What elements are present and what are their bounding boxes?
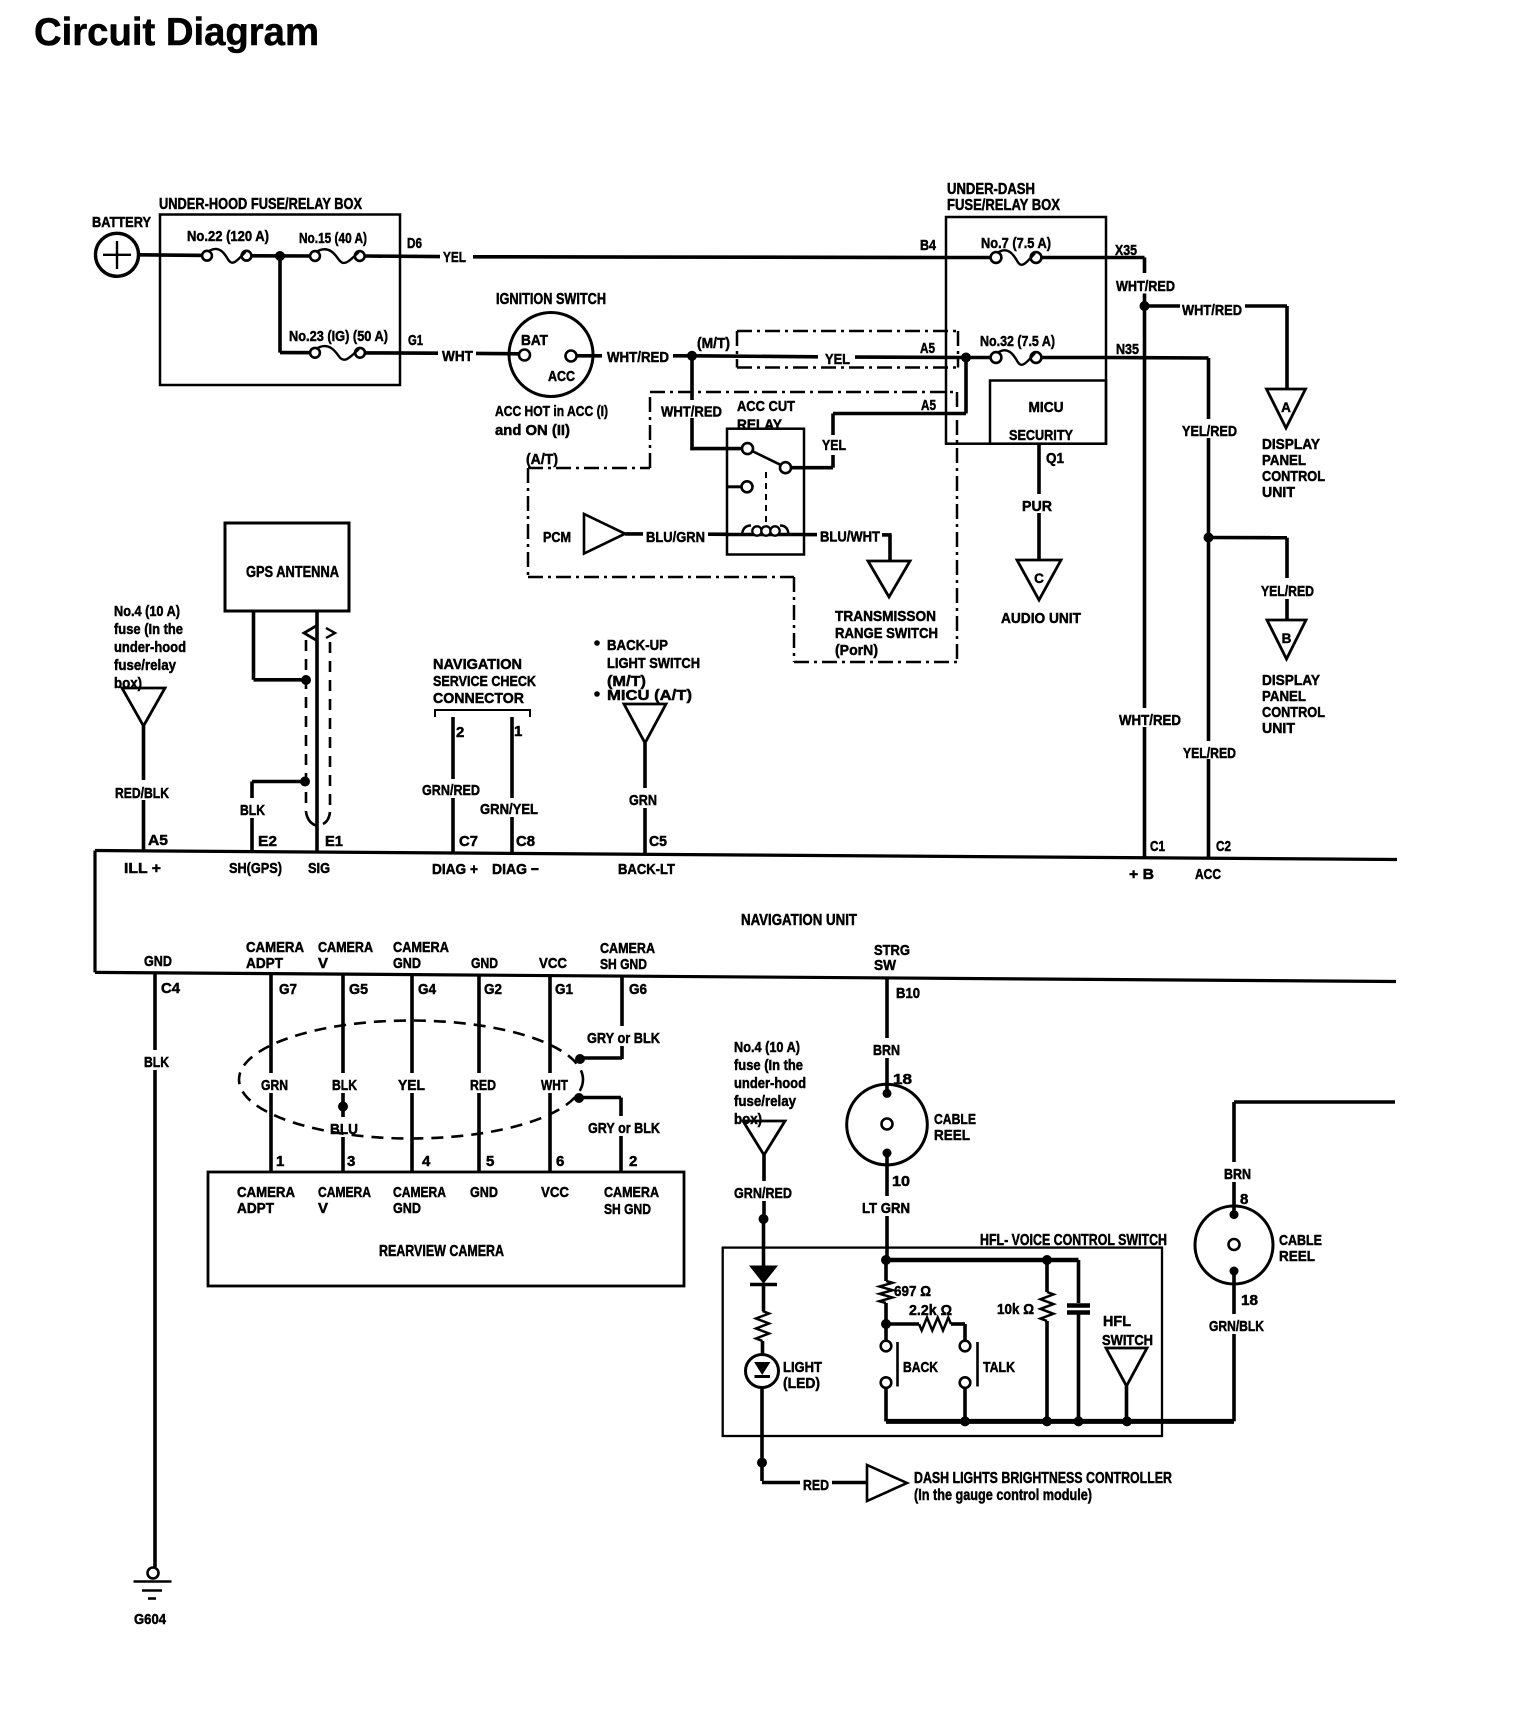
wire GND BLK to ground (153, 973, 157, 1050)
svg-text:under-hood: under-hood (734, 1075, 806, 1092)
svg-text:GRY or BLK: GRY or BLK (588, 1120, 660, 1137)
svg-text:YEL/RED: YEL/RED (1261, 583, 1314, 600)
wire gps SIG to nav E1 (315, 611, 319, 852)
wire junction down to fuse23 (278, 256, 282, 353)
wire LED to RED brightness controller (760, 1388, 764, 1482)
svg-text:WHT/RED: WHT/RED (607, 349, 669, 366)
svg-text:GPS ANTENNA: GPS ANTENNA (246, 564, 339, 581)
svg-text:A: A (1281, 400, 1291, 415)
fuse No.22 (120 A) (202, 251, 212, 261)
wire shield to camera pin 2 (579, 1096, 621, 1100)
svg-text:CAMERA: CAMERA (237, 1184, 295, 1201)
back-up light switch note (594, 640, 600, 646)
svg-text:G7: G7 (279, 981, 297, 998)
node shield ellipse bottom (574, 1093, 584, 1103)
node splice BLU (338, 1102, 348, 1112)
wire B10 BRN to cable reel (885, 978, 889, 1038)
svg-text:(A/T): (A/T) (526, 451, 558, 468)
svg-text:IGNITION SWITCH: IGNITION SWITCH (496, 291, 606, 308)
svg-text:N35: N35 (1116, 341, 1139, 358)
arrow from No.4 fuse (122, 688, 165, 726)
svg-text:TRANSMISSON: TRANSMISSON (835, 608, 936, 625)
svg-text:DIAG +: DIAG + (432, 861, 478, 878)
svg-text:REEL: REEL (1279, 1248, 1315, 1265)
svg-text:HFL: HFL (1103, 1313, 1131, 1330)
node junction below 697 (881, 1319, 891, 1329)
wire G1 WHT to ignition switch (365, 351, 438, 355)
svg-text:PCM: PCM (543, 529, 571, 546)
svg-text:SH(GPS): SH(GPS) (229, 860, 282, 877)
svg-text:GND: GND (393, 1200, 421, 1217)
svg-text:2.2k Ω: 2.2k Ω (909, 1302, 952, 1319)
under-hood fuse/relay box (160, 215, 400, 386)
wire WHT/RED down to relay (690, 356, 694, 400)
ground G604 (148, 1568, 159, 1579)
svg-text:C5: C5 (649, 833, 667, 850)
svg-text:V: V (318, 1200, 328, 1217)
switch BACK (884, 1324, 888, 1341)
svg-text:C2: C2 (1216, 838, 1231, 855)
transmission range switch arrow (868, 561, 910, 597)
svg-text:CONNECTOR: CONNECTOR (433, 690, 524, 707)
svg-text:(PorN): (PorN) (835, 642, 878, 659)
svg-text:PUR: PUR (1022, 498, 1052, 515)
svg-text:YEL/RED: YEL/RED (1183, 745, 1236, 762)
svg-text:HFL- VOICE CONTROL SWITCH: HFL- VOICE CONTROL SWITCH (980, 1232, 1167, 1249)
relay terminal 3 (742, 481, 753, 492)
svg-text:CAMERA: CAMERA (246, 939, 304, 956)
svg-text:RED: RED (803, 1477, 829, 1494)
svg-text:BAT: BAT (521, 333, 548, 349)
svg-text:YEL: YEL (443, 249, 466, 266)
wire diode to resistor (762, 1286, 766, 1311)
svg-text:G1: G1 (555, 981, 573, 998)
node junction LT GRN bus (881, 1255, 891, 1265)
svg-text:DISPLAY: DISPLAY (1262, 672, 1320, 689)
display panel control unit A arrow (1267, 389, 1306, 428)
node junction RED (757, 1458, 767, 1468)
arrow from No.4 fuse bottom (743, 1121, 785, 1155)
svg-text:C7: C7 (459, 833, 478, 850)
light LED (746, 1355, 779, 1388)
svg-text:YEL: YEL (398, 1077, 425, 1094)
svg-text:GND: GND (393, 955, 421, 972)
wire BLK shield to nav E2 (252, 780, 305, 784)
wire YEL/RED rail down to nav C2 (1207, 538, 1211, 742)
svg-text:BRN: BRN (873, 1042, 900, 1059)
wire YEL from relay T2 to A5 node (791, 466, 833, 470)
svg-text:DIAG −: DIAG − (492, 861, 539, 878)
svg-text:BACK-LT: BACK-LT (618, 861, 675, 878)
svg-text:AUDIO UNIT: AUDIO UNIT (1001, 610, 1081, 627)
svg-text:LIGHT: LIGHT (783, 1359, 822, 1376)
svg-text:(LED): (LED) (783, 1375, 820, 1392)
gps shield dashed right (329, 642, 332, 812)
svg-text:CABLE: CABLE (934, 1111, 976, 1128)
svg-text:10k Ω: 10k Ω (997, 1301, 1034, 1318)
svg-text:A5: A5 (920, 340, 935, 357)
switch TALK (960, 1341, 971, 1352)
svg-text:CAMERA: CAMERA (318, 939, 373, 956)
gps shield chevrons (304, 626, 316, 640)
svg-text:REARVIEW CAMERA: REARVIEW CAMERA (379, 1243, 504, 1260)
svg-text:SW: SW (874, 957, 897, 974)
svg-text:No.7 (7.5 A): No.7 (7.5 A) (981, 235, 1051, 252)
wire hfl bottom bus (886, 1419, 1234, 1424)
svg-text:BATTERY: BATTERY (92, 214, 151, 231)
resistor 2.2k ohm (886, 1322, 919, 1326)
svg-text:CAMERA: CAMERA (604, 1184, 659, 1201)
svg-text:VCC: VCC (539, 955, 567, 972)
svg-text:BACK: BACK (903, 1359, 938, 1376)
svg-text:SERVICE CHECK: SERVICE CHECK (433, 673, 536, 690)
svg-text:E2: E2 (258, 833, 277, 850)
svg-text:SH GND: SH GND (604, 1201, 651, 1218)
svg-text:GRN/BLK: GRN/BLK (1209, 1318, 1264, 1335)
svg-text:A5: A5 (921, 397, 936, 414)
svg-text:box): box) (734, 1111, 762, 1128)
svg-text:BLU/GRN: BLU/GRN (646, 529, 705, 546)
svg-text:DISPLAY: DISPLAY (1262, 436, 1320, 453)
svg-text:SWITCH: SWITCH (1102, 1332, 1153, 1349)
svg-text:SIG: SIG (308, 860, 330, 877)
svg-text:G5: G5 (349, 981, 368, 998)
svg-text:ILL +: ILL + (124, 860, 161, 877)
svg-text:GRY or BLK: GRY or BLK (587, 1030, 660, 1047)
wire BRN cable reel 2 (1234, 1100, 1395, 1104)
fuse No.32 (7.5 A) (966, 356, 996, 360)
wire X35 to WHT/RED rail (1106, 256, 1145, 260)
svg-text:WHT/RED: WHT/RED (661, 404, 722, 421)
svg-text:GRN/RED: GRN/RED (734, 1185, 792, 1202)
svg-text:UNDER-DASH: UNDER-DASH (947, 181, 1035, 198)
svg-text:CAMERA: CAMERA (393, 939, 449, 956)
wire RED/BLK to nav A5 (142, 726, 146, 780)
node junction GRN/RED (759, 1214, 769, 1224)
gps shield dashed left (305, 640, 308, 812)
svg-text:V: V (318, 955, 328, 972)
svg-text:C4: C4 (161, 980, 181, 997)
svg-text:RED: RED (470, 1077, 496, 1094)
svg-text:+ B: + B (1129, 866, 1154, 883)
wire battery to under-hood box (139, 253, 208, 257)
svg-text:18: 18 (1241, 1292, 1258, 1309)
svg-text:(M/T): (M/T) (697, 335, 730, 352)
svg-text:UNIT: UNIT (1262, 720, 1295, 737)
rearview camera box (208, 1172, 684, 1286)
node junction A5 YEL (961, 353, 971, 363)
node junction under-hood (275, 251, 285, 261)
svg-text:PANEL: PANEL (1262, 688, 1306, 705)
svg-text:GND: GND (144, 953, 172, 970)
relay coil L1 (727, 533, 804, 537)
cable reel 2 (1230, 1210, 1239, 1219)
svg-text:WHT/RED: WHT/RED (1119, 712, 1181, 729)
node junction YEL/RED rail (1204, 533, 1214, 543)
svg-text:D6: D6 (407, 235, 422, 252)
fuse No.15 (40 A) (310, 251, 320, 261)
hfl voice control switch box (723, 1248, 1162, 1436)
svg-text:G2: G2 (484, 981, 502, 998)
svg-text:TALK: TALK (983, 1359, 1015, 1376)
wire VCC WHT (548, 976, 552, 1073)
svg-text:No.23 (IG) (50 A): No.23 (IG) (50 A) (289, 328, 388, 345)
cable reel 1 (883, 1089, 892, 1098)
svg-text:ACC: ACC (1195, 866, 1221, 883)
wire GRN/BLK reel2 to hfl bus (1232, 1271, 1236, 1314)
wire branch to display panel control unit B (1209, 536, 1288, 540)
wire branch to display panel control unit A (1145, 304, 1181, 308)
camera harness shield ellipse (239, 1021, 583, 1139)
svg-text:WHT: WHT (541, 1077, 568, 1094)
svg-text:ADPT: ADPT (237, 1200, 274, 1217)
wire hfl top bus (886, 1258, 1079, 1263)
svg-text:GRN: GRN (629, 792, 657, 809)
wire BLU/WHT from relay coil (804, 533, 817, 537)
node junction 10k top (1042, 1255, 1052, 1265)
svg-text:No.15 (40 A): No.15 (40 A) (299, 230, 367, 247)
diode D1 (750, 1266, 777, 1283)
svg-text:CONTROL: CONTROL (1262, 468, 1325, 485)
wire inside box No.7 row (1042, 256, 1107, 260)
svg-text:under-hood: under-hood (114, 639, 186, 656)
svg-text:CONTROL: CONTROL (1262, 704, 1325, 721)
svg-text:BLK: BLK (240, 802, 265, 819)
svg-text:No.4 (10 A): No.4 (10 A) (734, 1039, 800, 1056)
svg-text:G1: G1 (408, 332, 423, 349)
svg-text:FUSE/RELAY BOX: FUSE/RELAY BOX (947, 197, 1061, 214)
resistor 697 ohm (884, 1260, 888, 1281)
svg-text:No.22 (120 A): No.22 (120 A) (187, 228, 269, 245)
back-up light switch arrow (624, 704, 666, 743)
svg-text:B: B (1282, 631, 1292, 646)
svg-text:BRN: BRN (1224, 1166, 1251, 1183)
svg-text:C8: C8 (516, 833, 535, 850)
svg-text:GND: GND (470, 1184, 498, 1201)
wire fuse22 to junction (251, 254, 315, 258)
wire camera SH GND GRY (620, 976, 624, 1026)
svg-text:BLU/WHT: BLU/WHT (820, 529, 880, 546)
ignition terminal ACC (566, 351, 577, 362)
wire camera GND YEL (410, 975, 414, 1073)
ignition switch SW1 (509, 313, 593, 397)
navigation unit box (95, 851, 1397, 860)
svg-text:fuse (In the: fuse (In the (734, 1057, 803, 1074)
svg-text:UNIT: UNIT (1262, 484, 1295, 501)
svg-text:MICU: MICU (1029, 399, 1064, 416)
svg-text:GRN/YEL: GRN/YEL (480, 801, 538, 818)
svg-text:GRN/RED: GRN/RED (422, 782, 480, 799)
svg-text:WHT/RED: WHT/RED (1182, 302, 1242, 319)
svg-text:MICU (A/T): MICU (A/T) (607, 687, 692, 704)
under-dash fuse/relay box (946, 217, 1106, 444)
wire N35 to YEL/RED rail (1106, 356, 1209, 360)
svg-text:No.4 (10 A): No.4 (10 A) (114, 603, 180, 620)
node junction WHT/RED (687, 351, 697, 361)
wire camera ADPT GRN (269, 974, 273, 1073)
svg-text:6: 6 (556, 1153, 564, 1170)
resistor 10k ohm (1045, 1260, 1049, 1292)
svg-text:4: 4 (422, 1153, 431, 1170)
svg-text:GRN: GRN (261, 1077, 288, 1094)
wire gps shield drain top (252, 611, 256, 680)
svg-text:E1: E1 (325, 833, 343, 850)
svg-text:RED/BLK: RED/BLK (115, 785, 169, 802)
svg-text:Circuit Diagram: Circuit Diagram (34, 11, 319, 54)
svg-text:LIGHT SWITCH: LIGHT SWITCH (607, 655, 700, 672)
svg-text:697 Ω: 697 Ω (894, 1283, 931, 1300)
svg-text:YEL: YEL (825, 351, 850, 368)
svg-text:SECURITY: SECURITY (1009, 427, 1073, 444)
svg-text:BLK: BLK (332, 1077, 357, 1094)
svg-text:and ON (II): and ON (II) (495, 422, 570, 439)
relay terminal 1 (742, 443, 753, 454)
svg-text:5: 5 (486, 1153, 494, 1170)
svg-text:REEL: REEL (934, 1127, 970, 1144)
svg-text:UNDER-HOOD FUSE/RELAY BOX: UNDER-HOOD FUSE/RELAY BOX (159, 196, 363, 213)
wire YEL (M/T) to under-dash A5 (692, 356, 818, 357)
svg-text:SH GND: SH GND (600, 956, 647, 973)
svg-text:YEL: YEL (822, 437, 846, 454)
svg-text:RANGE SWITCH: RANGE SWITCH (835, 625, 938, 642)
capacitor C1hfl (1077, 1260, 1081, 1303)
micu security box (990, 381, 1106, 444)
svg-text:fuse/relay: fuse/relay (734, 1093, 797, 1110)
wire WHT/RED rail down to nav C1 (1143, 306, 1147, 708)
relay blade (753, 451, 781, 465)
node shield bottom (300, 777, 310, 787)
audio unit arrow C (1017, 560, 1061, 600)
svg-text:GND: GND (471, 955, 498, 972)
wire GRN/RED into hfl box (762, 1155, 766, 1181)
wire GRN to nav C5 (643, 743, 647, 788)
svg-text:C: C (1034, 571, 1044, 586)
svg-text:NAVIGATION UNIT: NAVIGATION UNIT (741, 912, 857, 929)
svg-text:PANEL: PANEL (1262, 452, 1306, 469)
svg-text:CAMERA: CAMERA (600, 940, 655, 957)
svg-text:CAMERA: CAMERA (393, 1184, 446, 1201)
wire inside box No.32 row (1042, 356, 1107, 360)
relay ACC CUT RELAY (727, 429, 804, 555)
node shield top (301, 675, 311, 685)
dash lights brightness controller arrow (867, 1465, 907, 1501)
svg-text:1: 1 (276, 1153, 284, 1170)
svg-text:ACC: ACC (548, 369, 575, 385)
node junction WHT/RED rail (1140, 301, 1150, 311)
svg-text:Q1: Q1 (1046, 450, 1064, 467)
svg-text:YEL/RED: YEL/RED (1182, 423, 1237, 440)
gps antenna box (225, 523, 349, 611)
svg-text:G4: G4 (418, 981, 437, 998)
wire ignition ACC WHT/RED to junction (577, 354, 603, 358)
svg-text:LT GRN: LT GRN (862, 1200, 910, 1217)
svg-text:10: 10 (892, 1173, 910, 1190)
svg-text:3: 3 (347, 1153, 355, 1170)
svg-text:CABLE: CABLE (1279, 1232, 1322, 1249)
svg-text:2: 2 (629, 1153, 637, 1170)
svg-text:No.32 (7.5 A): No.32 (7.5 A) (980, 333, 1055, 350)
battery B1 (96, 233, 139, 276)
wire GND RED (477, 975, 481, 1073)
svg-text:BLK: BLK (144, 1054, 169, 1071)
svg-text:fuse (In the: fuse (In the (114, 621, 183, 638)
node shield ellipse top (575, 1054, 585, 1064)
svg-text:BACK-UP: BACK-UP (607, 637, 668, 654)
svg-text:RELAY: RELAY (737, 417, 782, 434)
svg-text:ACC HOT in ACC (I): ACC HOT in ACC (I) (495, 403, 608, 420)
svg-text:C1: C1 (1150, 838, 1165, 855)
svg-text:1: 1 (514, 723, 522, 740)
svg-text:box): box) (114, 675, 142, 692)
svg-text:WHT/RED: WHT/RED (1116, 278, 1175, 295)
svg-text:A5: A5 (148, 832, 168, 849)
svg-text:VCC: VCC (541, 1184, 569, 1201)
fuse No.23 (IG) (50 A) (310, 348, 320, 358)
relay terminal 2 (780, 462, 791, 473)
resistor (LED branch) (756, 1311, 769, 1341)
svg-text:G604: G604 (134, 1612, 166, 1628)
wire LT GRN reel to HFL box (885, 1153, 889, 1196)
wire GRN/RED to nav C7 (451, 717, 455, 779)
pcm arrow (584, 514, 625, 554)
wire camera V BLK/BLU (341, 974, 345, 1073)
ignition terminal BAT (519, 350, 530, 361)
wire BLU/GRN pcm to relay coil (625, 532, 643, 536)
wire GRN/YEL to nav C8 (510, 717, 514, 798)
svg-text:DASH LIGHTS BRIGHTNESS CONTROL: DASH LIGHTS BRIGHTNESS CONTROLLER (914, 1470, 1172, 1487)
svg-text:WHT: WHT (442, 348, 473, 365)
svg-text:ACC CUT: ACC CUT (737, 398, 795, 415)
svg-text:(In the gauge control module): (In the gauge control module) (914, 1487, 1092, 1504)
display panel control unit B arrow (1267, 620, 1306, 659)
svg-text:NAVIGATION: NAVIGATION (433, 656, 522, 673)
relay actuator dashed (765, 472, 767, 523)
wire D6 YEL bus to under-dash B4 (365, 254, 440, 258)
svg-text:CAMERA: CAMERA (318, 1184, 371, 1201)
svg-text:B4: B4 (920, 237, 937, 254)
svg-text:2: 2 (456, 724, 464, 741)
svg-text:fuse/relay: fuse/relay (114, 657, 177, 674)
svg-text:ADPT: ADPT (246, 955, 283, 972)
svg-text:G6: G6 (629, 981, 647, 998)
svg-text:B10: B10 (896, 985, 920, 1002)
